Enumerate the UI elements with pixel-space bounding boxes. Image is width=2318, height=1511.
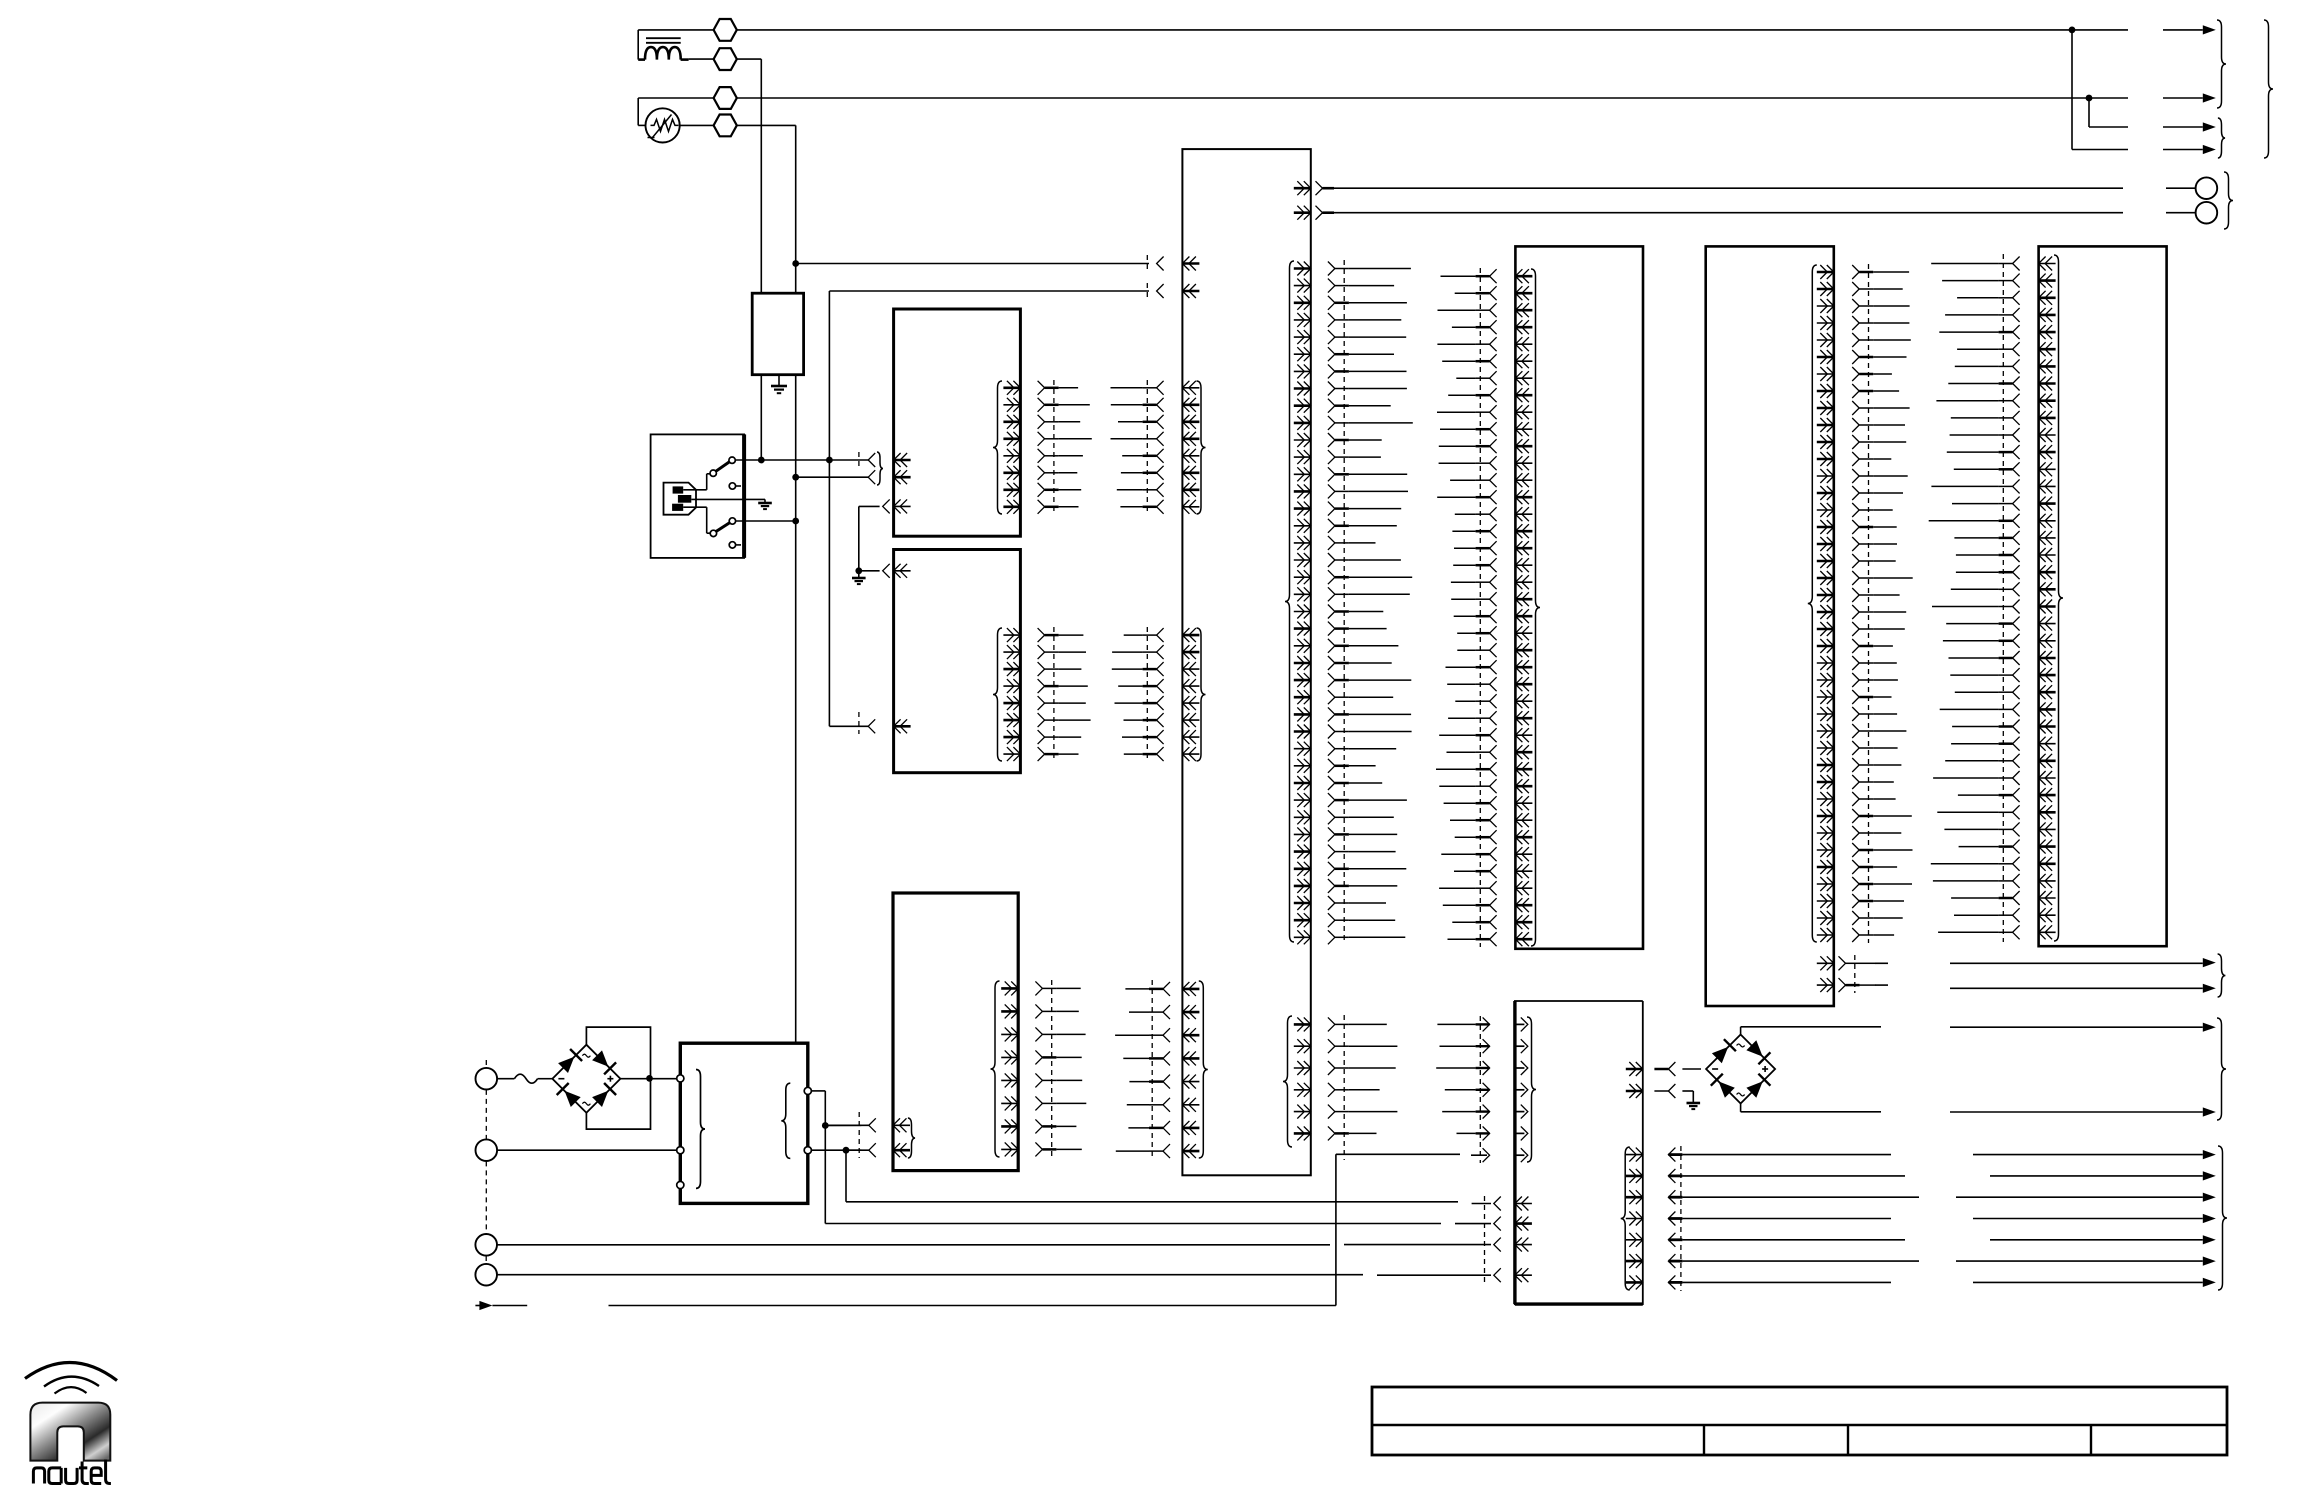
PA lower-right free pins	[1668, 1146, 1682, 1291]
PA upper free pins	[1436, 1016, 1489, 1163]
ground below FL1	[771, 375, 787, 394]
T1 primary port c	[677, 1181, 684, 1188]
bus junction dot 1	[2069, 27, 2076, 150]
PS1 left pin 1	[859, 452, 911, 468]
module C out pin X1	[1817, 955, 1876, 993]
net terminal E2 (hexagon)	[714, 48, 737, 70]
wire S1b to FL1-B	[736, 518, 800, 525]
PS1 left pin 2	[868, 470, 910, 484]
power supply module PS1	[894, 309, 1021, 536]
output wire O6	[1682, 1257, 2215, 1266]
top wires brace 2	[2218, 118, 2225, 158]
title block table	[1372, 1387, 2227, 1455]
bridge rectifier BR1	[552, 1045, 620, 1113]
module B in pins (40)	[1515, 269, 1540, 946]
PS3 right pin brace	[991, 981, 1000, 1157]
PA out pin to BR2	[1626, 1062, 1701, 1076]
fuse F1	[497, 1074, 553, 1083]
AC plug P1	[664, 483, 697, 515]
wire X2 to right	[1875, 984, 2216, 993]
panel A out pin T2	[1294, 206, 1334, 220]
PA module E	[1515, 1001, 1643, 1304]
T1 secondary brace	[781, 1083, 790, 1158]
wire top 2 arrow	[2163, 93, 2216, 102]
PS1 left pin brace	[877, 452, 883, 485]
wire S1a to PS1 pin 1	[735, 457, 869, 464]
input connector circle C3	[475, 1234, 497, 1256]
switch S1b	[710, 518, 735, 537]
switch S1a	[710, 457, 735, 476]
PS2 output free pins (8)	[1038, 627, 1091, 762]
net terminal E4 (hexagon)	[714, 115, 737, 137]
output wire O7	[1682, 1278, 2215, 1287]
panel A in pins group D (8)	[1182, 981, 1207, 1158]
panel A in pins group B (8)	[1182, 381, 1205, 514]
inductor L1 (iron core)	[645, 38, 681, 59]
wire plug neutral to ground	[691, 499, 772, 509]
PS1 right pins (8)	[1003, 381, 1020, 514]
module B free pins (40)	[1436, 268, 1497, 947]
output wire O4	[1682, 1214, 2215, 1223]
panel A group C free pins	[1112, 627, 1164, 762]
input connector circle C1	[476, 1068, 498, 1090]
remote circle R1	[2196, 177, 2218, 199]
wire C2 to T1	[497, 1149, 677, 1151]
PA in pins lower (4)	[1515, 1197, 1532, 1283]
input connector circle C4	[475, 1264, 497, 1286]
wire hex E1 left lead	[638, 30, 713, 60]
PS2 right pins (8)	[1003, 628, 1020, 761]
wire FL1 output A	[760, 375, 762, 460]
harness wire W5	[609, 1154, 1488, 1305]
net terminal E3 (hexagon)	[714, 87, 737, 109]
bridge rectifier BR2	[1706, 1035, 1775, 1104]
wire T1 sec-a to bus	[811, 1091, 869, 1224]
PA out pins lower (7)	[1621, 1147, 1643, 1290]
harness wire W4	[497, 1274, 1491, 1277]
wire plug line to switch 1	[683, 474, 710, 490]
wire FL1-B branch to PS1 pin 2	[792, 474, 869, 481]
PA out pin to gnd	[1626, 1084, 1700, 1109]
PS1 right pin brace	[993, 381, 1002, 514]
module C out pin X2	[1817, 978, 1876, 992]
BR2 wires brace	[2217, 1018, 2226, 1120]
PS2 left pin 2	[859, 712, 911, 734]
T1 secondary port a	[804, 1087, 811, 1094]
wire net E2 drop	[737, 59, 762, 293]
EMI filter FL1	[752, 293, 803, 375]
panel A main free pins (40)	[1328, 260, 1413, 944]
wire T1 to remote circle	[1334, 187, 2196, 189]
power supply module PS2	[894, 550, 1021, 773]
T1 secondary port b	[804, 1147, 811, 1154]
output wires brace	[2218, 1146, 2227, 1290]
panel A lower free pins (6)	[1328, 1015, 1398, 1160]
wire BR1 out	[620, 1075, 677, 1082]
PA lower free chevrons	[1485, 1196, 1501, 1283]
amplifier module C	[1706, 246, 1834, 1006]
top wires outer brace	[2264, 20, 2273, 158]
wire top 3	[2089, 122, 2216, 131]
panel A in pin L1	[792, 255, 1199, 272]
top wires brace 1	[2217, 20, 2226, 108]
wire BR2 top out	[1741, 1023, 2216, 1035]
wire hex E3 left lead	[638, 98, 713, 125]
panel A out pins lower (6)	[1283, 1016, 1311, 1147]
output wire O1	[1682, 1150, 2215, 1159]
PS3 left pin 2	[846, 1143, 910, 1157]
PS1 left pin 3 (gnd)	[859, 499, 911, 513]
AC inlet / breaker box S1	[651, 434, 745, 558]
wire inductor to hex E2	[681, 58, 714, 61]
input connector circle C2	[476, 1139, 498, 1161]
junction drop to PS2 pin	[829, 460, 869, 726]
PS3 left pin 1	[825, 1118, 911, 1132]
harness wire W3	[497, 1244, 1491, 1246]
PS2 right pin brace	[993, 628, 1002, 761]
wire net E4 drop	[737, 125, 796, 293]
panel A in pins group C (8)	[1182, 628, 1205, 761]
net terminal E1 (hexagon)	[714, 19, 737, 41]
wire BR2 bottom out	[1741, 1104, 2216, 1117]
output wire O3	[1682, 1193, 2215, 1202]
panel A in pin L2	[829, 283, 1199, 460]
PS2 left pin 1 (gnd)	[859, 564, 911, 578]
output wire O5	[1682, 1235, 2215, 1244]
ground tie node	[852, 506, 866, 584]
T1 primary brace	[696, 1070, 705, 1189]
module D free pins (40)	[1929, 254, 2020, 942]
wire top 1 arrow	[2163, 25, 2216, 34]
switch S1a spare contact	[729, 483, 741, 489]
wire FL1 output B	[795, 375, 797, 1043]
power transformer T1	[680, 1043, 808, 1203]
panel A group D free pins	[1115, 980, 1170, 1159]
PS3 output free pins (8)	[1035, 980, 1086, 1158]
nautel logo	[25, 1362, 117, 1483]
flow arrow marker	[475, 1301, 527, 1310]
module C out pins (40)	[1808, 265, 1834, 942]
remote circle R2	[2196, 202, 2218, 224]
module D in pins (40)	[2039, 255, 2063, 941]
wire varistor to hex E4	[680, 124, 714, 126]
T1 primary port a	[677, 1075, 684, 1082]
wire top 4	[2072, 145, 2216, 154]
surge box around BR1	[586, 1027, 650, 1129]
panel A out pins main (40)	[1285, 261, 1311, 944]
PA in pins upper (7)	[1515, 1017, 1536, 1162]
PS3 left pin dashes	[859, 1112, 915, 1158]
wire plug line2 to switch 2	[683, 507, 710, 533]
wire net E3 to top-right bus	[737, 97, 2128, 99]
wire net E1 to top-right bus	[737, 29, 2128, 31]
wire T2 to remote circle	[1334, 212, 2196, 214]
harness wire W1	[846, 1202, 1491, 1204]
module C free pins (40)	[1852, 264, 1913, 943]
output wire O2	[1682, 1171, 2215, 1180]
panel A out pin T1	[1294, 181, 1334, 195]
wire T1 sec-b node	[811, 1147, 869, 1202]
PS3 right pins (8)	[1001, 981, 1018, 1156]
harness wire W2	[825, 1223, 1491, 1225]
switch S1b spare contact	[729, 542, 741, 548]
power supply module PS3	[893, 893, 1018, 1171]
exciter module B	[1515, 246, 1643, 948]
connector dashed link	[485, 1060, 487, 1264]
PS1 output free pins (8)	[1038, 380, 1092, 515]
remote circles brace	[2224, 172, 2233, 229]
control interface panel A	[1182, 149, 1310, 1175]
panel A group B free pins	[1111, 380, 1164, 515]
T1 primary port b	[677, 1147, 684, 1154]
wire X1 to right	[1875, 958, 2216, 967]
monitor module D	[2039, 246, 2167, 946]
varistor RV1 (circle w/ zigzag)	[646, 108, 680, 142]
bus junction dot 2	[2086, 95, 2093, 127]
wires X brace	[2218, 954, 2226, 997]
